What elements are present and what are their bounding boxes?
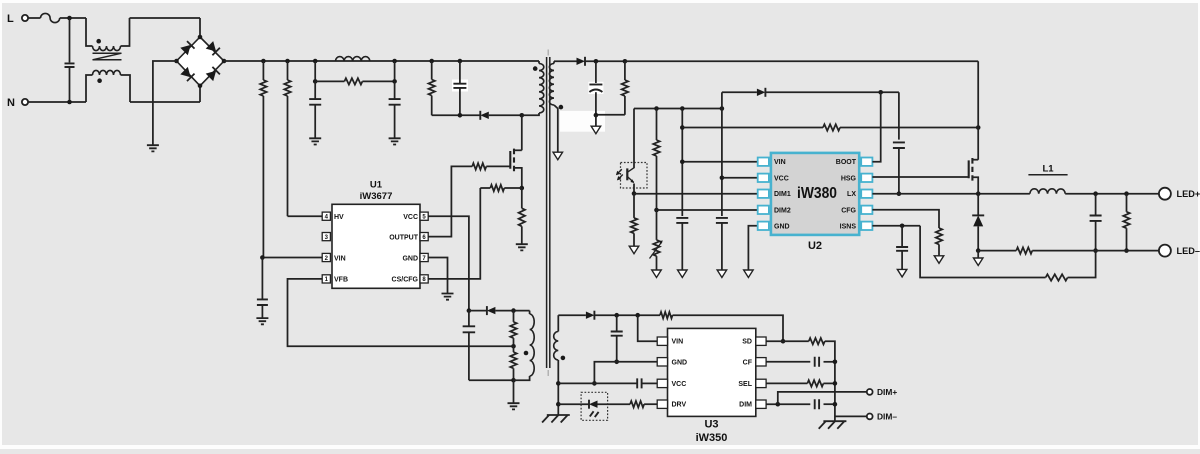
IC U2 body bbox=[771, 153, 859, 235]
svg-text:LED+: LED+ bbox=[1177, 189, 1200, 199]
U1 pin 7 box bbox=[420, 253, 428, 261]
node bbox=[261, 59, 266, 64]
node bbox=[392, 79, 397, 84]
optocoupler U4 transistor bbox=[627, 168, 634, 183]
svg-text:L: L bbox=[7, 13, 14, 25]
capacitor C5 bbox=[257, 258, 268, 318]
wire bbox=[1068, 251, 1096, 278]
bridge rectifier BR1 body bbox=[177, 37, 225, 86]
capacitor C2 bbox=[309, 81, 321, 138]
wire bbox=[824, 403, 835, 405]
svg-text:U1: U1 bbox=[370, 180, 383, 191]
resistor R6 sense bbox=[519, 188, 525, 244]
node bbox=[680, 106, 685, 111]
U1 pin labels left bbox=[334, 214, 348, 284]
wire DIM- bbox=[835, 415, 867, 417]
wire bbox=[557, 360, 559, 415]
terminal LED+ bbox=[1159, 188, 1171, 200]
polarity dot bbox=[97, 78, 102, 83]
node bbox=[623, 59, 628, 64]
wire bbox=[598, 403, 631, 405]
wire bbox=[554, 105, 558, 152]
wire CF bbox=[766, 361, 810, 363]
svg-text:LED–: LED– bbox=[1177, 246, 1200, 256]
polarity dot bbox=[524, 351, 529, 356]
resistor R14 bbox=[936, 228, 942, 255]
diode D8 freewheel bbox=[972, 194, 984, 251]
wire SD bbox=[766, 340, 809, 342]
wire VBUS rail bbox=[625, 60, 978, 62]
wire bbox=[558, 314, 586, 316]
svg-text:CFG: CFG bbox=[841, 207, 856, 214]
node bridge left bbox=[174, 59, 179, 64]
resistor R3 bbox=[344, 78, 362, 84]
svg-text:GND: GND bbox=[774, 223, 790, 230]
ground bbox=[147, 145, 159, 151]
ground secondary bbox=[897, 269, 907, 277]
node bbox=[900, 224, 905, 229]
wire bbox=[765, 91, 899, 93]
node bbox=[467, 308, 472, 313]
wire bbox=[153, 61, 177, 145]
U1 pin 2 box bbox=[322, 253, 330, 261]
U3 pin SD bbox=[742, 337, 766, 346]
capacitor C11 bbox=[896, 226, 908, 269]
wire bbox=[60, 17, 86, 19]
svg-text:DIM+: DIM+ bbox=[877, 387, 897, 397]
svg-text:ISNS: ISNS bbox=[840, 223, 857, 230]
node L1 bbox=[67, 16, 72, 21]
wire bbox=[504, 187, 522, 189]
U3 pin VIN bbox=[657, 337, 683, 346]
wire bbox=[199, 18, 201, 37]
node bbox=[285, 59, 290, 64]
wire bbox=[199, 86, 201, 102]
node bbox=[556, 402, 561, 407]
U2 pin VCC bbox=[758, 174, 789, 183]
U2 pin ISNS bbox=[840, 222, 873, 231]
label iW3677 bbox=[360, 191, 393, 202]
capacitor C9 bbox=[716, 218, 728, 270]
node bbox=[313, 79, 318, 84]
wire bbox=[538, 61, 540, 64]
ground secondary bbox=[629, 246, 639, 254]
U2 pin DIM1 bbox=[758, 190, 791, 199]
bridge diode D-BR bbox=[206, 67, 220, 81]
wire bbox=[522, 113, 539, 115]
svg-text:HSG: HSG bbox=[841, 175, 857, 182]
optocoupler light arrows bbox=[616, 169, 623, 180]
U2 pin CFG bbox=[841, 206, 872, 215]
U1 pin 5 box bbox=[420, 212, 428, 220]
node bbox=[458, 113, 463, 118]
wire bbox=[86, 75, 93, 102]
wire VCC branch bbox=[721, 92, 723, 216]
svg-text:SD: SD bbox=[742, 339, 752, 346]
wire DIM+ bbox=[778, 392, 867, 404]
node N1 bbox=[67, 100, 72, 105]
optocoupler U4 box bbox=[621, 163, 648, 189]
ground bbox=[309, 138, 321, 144]
terminal DIM- bbox=[867, 414, 873, 420]
svg-text:N: N bbox=[7, 97, 15, 109]
capacitor C14 bbox=[637, 378, 641, 388]
node bbox=[260, 255, 265, 260]
label blank bbox=[588, 82, 603, 94]
resistor R5 bbox=[472, 163, 486, 169]
capacitor CX1 bbox=[65, 18, 75, 102]
node bbox=[833, 360, 838, 365]
bridge diode D-BL bbox=[180, 67, 194, 81]
wire LED- rail bbox=[978, 250, 1016, 252]
wire VCC bbox=[428, 216, 469, 310]
svg-text:VIN: VIN bbox=[672, 339, 684, 346]
wire VFB bbox=[288, 279, 514, 346]
node bbox=[654, 208, 659, 213]
opto LED U4 box bbox=[581, 392, 608, 420]
terminal L bbox=[22, 15, 28, 21]
node bbox=[976, 248, 981, 253]
U2 pin BOOT bbox=[836, 158, 873, 167]
label DIM+ bbox=[877, 387, 897, 397]
svg-text:DIM2: DIM2 bbox=[774, 207, 791, 214]
wire DIM bbox=[766, 403, 810, 405]
transformer T2 aux winding bbox=[514, 311, 535, 381]
resistor R2 bbox=[284, 61, 290, 216]
wire bbox=[495, 310, 529, 312]
label blank bbox=[452, 80, 468, 92]
svg-text:CF: CF bbox=[743, 359, 753, 366]
node bbox=[976, 125, 981, 130]
transformer T2 secondary winding bbox=[549, 61, 554, 105]
label iW350 bbox=[696, 432, 728, 444]
U2 pin GND bbox=[758, 222, 790, 231]
ground bbox=[442, 294, 454, 300]
label U2 bbox=[808, 240, 822, 252]
node bbox=[458, 59, 463, 64]
svg-text:U3: U3 bbox=[704, 419, 718, 431]
capacitor C12 bbox=[1090, 194, 1102, 251]
polarity dot bbox=[561, 356, 566, 361]
node bbox=[1093, 191, 1098, 196]
wire VIN branch bbox=[681, 109, 683, 217]
U1 pin 3 box bbox=[322, 233, 330, 241]
capacitor C10 boot bbox=[893, 92, 905, 193]
wire bbox=[977, 61, 979, 159]
U1 pin 1 box bbox=[322, 275, 330, 283]
wire DIM2 bbox=[657, 209, 758, 211]
node bbox=[614, 360, 619, 365]
label blank bbox=[560, 111, 605, 132]
svg-text:VFB: VFB bbox=[334, 277, 348, 284]
inductor L2 bbox=[336, 57, 370, 61]
resistor R4 bbox=[429, 61, 435, 115]
capacitor C15 bbox=[815, 357, 819, 367]
U2 pin DIM2 bbox=[758, 206, 791, 215]
node bbox=[429, 59, 434, 64]
resistor R15 bbox=[1046, 274, 1068, 280]
resistor R12 bbox=[653, 109, 659, 211]
wire VIN bbox=[262, 257, 322, 259]
label iW380 bbox=[797, 185, 837, 202]
wire LX bbox=[872, 193, 1030, 195]
diode D2 bbox=[487, 306, 496, 315]
wire bbox=[977, 251, 979, 258]
choke T1 bottom winding bbox=[93, 70, 121, 75]
node bridge bottom bbox=[198, 84, 203, 89]
capacitor C13 bbox=[611, 315, 623, 362]
svg-text:DRV: DRV bbox=[672, 402, 687, 409]
node bbox=[776, 402, 781, 407]
opto LED arrows bbox=[590, 411, 599, 417]
wire bbox=[130, 101, 200, 103]
transformer T2 aux2 winding bbox=[554, 315, 559, 360]
wire bbox=[121, 18, 130, 46]
wire bbox=[825, 341, 835, 421]
capacitor C8 bbox=[676, 218, 688, 270]
svg-text:L1: L1 bbox=[1042, 164, 1054, 175]
svg-text:DIM: DIM bbox=[739, 402, 752, 409]
resistor R17 bbox=[1016, 247, 1032, 253]
wire bbox=[824, 361, 835, 363]
wire bbox=[823, 382, 835, 384]
svg-text:GND: GND bbox=[672, 359, 688, 366]
svg-text:BOOT: BOOT bbox=[836, 159, 857, 166]
capacitor C16 bbox=[815, 399, 819, 409]
label U3 bbox=[704, 419, 718, 431]
node bbox=[878, 90, 883, 95]
wire CS bbox=[428, 188, 480, 279]
node bbox=[897, 191, 902, 196]
node bbox=[313, 59, 318, 64]
wire bbox=[314, 61, 316, 81]
ground secondary bbox=[744, 270, 754, 278]
wire GND pin bbox=[748, 226, 758, 270]
wire bbox=[315, 80, 344, 82]
transistor Q1 bbox=[510, 149, 522, 188]
ground bbox=[508, 403, 520, 409]
wire bbox=[28, 101, 86, 103]
wire BOOT bbox=[872, 92, 880, 161]
node bbox=[632, 191, 637, 196]
transformer core bbox=[547, 50, 550, 377]
wire bbox=[394, 61, 396, 81]
U3 pin CF bbox=[743, 358, 766, 367]
wire bbox=[554, 60, 577, 62]
wire bbox=[28, 17, 40, 19]
polarity dot bbox=[559, 105, 564, 110]
IC U3 body bbox=[668, 328, 756, 416]
diode D9 bbox=[586, 311, 595, 320]
svg-text:VCC: VCC bbox=[403, 214, 418, 221]
ground secondary bbox=[934, 256, 944, 263]
wire bbox=[469, 379, 514, 381]
wire bbox=[86, 18, 93, 46]
terminal DIM+ bbox=[867, 389, 873, 395]
label U1 bbox=[370, 180, 383, 191]
label N bbox=[7, 97, 15, 109]
polarity dot bbox=[96, 39, 101, 44]
resistor R1 bbox=[260, 61, 266, 258]
node bbox=[680, 125, 685, 130]
U2 pin LX bbox=[847, 190, 872, 199]
wire bbox=[469, 310, 487, 312]
U1 pin 6 box bbox=[420, 233, 428, 241]
wire bbox=[642, 382, 658, 384]
wire VIN pin bbox=[682, 161, 758, 163]
resistor R11 bbox=[631, 194, 637, 246]
transistor Q2 bbox=[969, 158, 979, 194]
wire DC+ rail bbox=[224, 60, 539, 62]
diode D4 bbox=[757, 88, 766, 97]
wire bbox=[480, 187, 490, 189]
node bbox=[594, 113, 599, 118]
wire bbox=[673, 315, 784, 341]
node bbox=[511, 378, 516, 383]
ground earth bbox=[542, 415, 570, 423]
label L bbox=[7, 13, 14, 25]
wire bbox=[722, 91, 757, 93]
capacitor C7 bbox=[589, 61, 602, 115]
wire bbox=[594, 314, 660, 316]
ground secondary bbox=[591, 126, 601, 134]
U2 pin VIN bbox=[758, 158, 786, 167]
node bbox=[520, 186, 525, 191]
U1 pin 4 box bbox=[322, 212, 330, 220]
svg-text:iW3677: iW3677 bbox=[360, 191, 393, 202]
resistor R18 bbox=[660, 312, 673, 318]
bridge diode D-TL bbox=[180, 41, 194, 55]
transformer T2 primary winding bbox=[539, 64, 544, 114]
node bbox=[781, 339, 786, 344]
svg-text:OUTPUT: OUTPUT bbox=[389, 234, 419, 241]
wire bbox=[362, 80, 394, 82]
choke T1 top winding bbox=[93, 46, 121, 51]
diode D1 bbox=[480, 111, 489, 120]
IC U1 body bbox=[332, 204, 420, 288]
capacitor C6 bbox=[463, 311, 476, 381]
wire VIN U3 bbox=[638, 315, 658, 341]
ground secondary bbox=[717, 270, 727, 278]
U3 pin VCC bbox=[657, 379, 686, 388]
node bbox=[511, 308, 516, 313]
svg-text:SEL: SEL bbox=[738, 381, 752, 388]
resistor R20 bbox=[809, 338, 825, 344]
capacitor C3 bbox=[389, 81, 401, 138]
wire SEL bbox=[766, 382, 807, 384]
wire bbox=[644, 403, 657, 405]
label LED+ bbox=[1177, 189, 1200, 199]
wire bbox=[513, 380, 515, 403]
wire ISNS bbox=[872, 225, 920, 227]
U1 pin 8 box bbox=[420, 275, 428, 283]
wire VCC row bbox=[558, 382, 637, 384]
node bbox=[594, 59, 599, 64]
U3 pin DIM bbox=[739, 400, 766, 409]
resistor R9 bbox=[510, 346, 516, 380]
wire net A bbox=[634, 108, 722, 110]
node bbox=[720, 176, 725, 181]
wire GND U3 bbox=[594, 362, 657, 384]
node bbox=[635, 313, 640, 318]
node bbox=[392, 59, 397, 64]
node bridge right bbox=[222, 59, 227, 64]
inductor L1 bbox=[1030, 189, 1065, 194]
capacitor C4 bbox=[453, 61, 466, 115]
wire GND bbox=[428, 258, 447, 294]
ground secondary bbox=[553, 152, 563, 160]
ground secondary bbox=[652, 270, 662, 278]
node bbox=[976, 191, 981, 196]
wire bbox=[585, 60, 625, 62]
node bridge top bbox=[198, 35, 203, 40]
terminal LED- bbox=[1159, 245, 1171, 257]
node bbox=[1124, 191, 1129, 196]
node bbox=[1124, 248, 1129, 253]
wire DRV row bbox=[558, 403, 589, 405]
wire gate bbox=[486, 165, 510, 167]
node bbox=[833, 402, 838, 407]
wire HV bbox=[288, 215, 323, 217]
wire bbox=[121, 75, 131, 102]
ground bbox=[389, 138, 401, 144]
svg-text:HV: HV bbox=[334, 214, 344, 221]
resistor R13 bbox=[823, 124, 840, 130]
wire bbox=[489, 114, 522, 116]
resistor R16 bbox=[1123, 194, 1129, 251]
bridge diode D-TR bbox=[206, 41, 220, 55]
ground secondary bbox=[973, 258, 983, 266]
varistor RV1 bbox=[650, 210, 663, 270]
wire bbox=[840, 127, 978, 129]
wire DIM1 bbox=[634, 193, 758, 195]
svg-text:VIN: VIN bbox=[774, 159, 786, 166]
wire bbox=[595, 115, 597, 126]
U2 pin HSG bbox=[841, 174, 873, 183]
resistor R21 bbox=[807, 380, 823, 386]
wire bbox=[1032, 250, 1161, 252]
wire CFG bbox=[872, 210, 939, 228]
node bbox=[592, 381, 597, 386]
resistor R19 bbox=[630, 401, 644, 407]
choke core bbox=[93, 53, 122, 60]
ground secondary bbox=[678, 270, 688, 278]
wire bbox=[428, 166, 472, 236]
ground bbox=[256, 318, 268, 324]
wire collector bbox=[633, 109, 635, 169]
U3 pin DRV bbox=[657, 400, 686, 409]
node bbox=[720, 106, 725, 111]
resistor R7 bbox=[490, 185, 504, 191]
node bbox=[511, 344, 516, 349]
svg-text:LX: LX bbox=[847, 191, 856, 198]
node bbox=[654, 106, 659, 111]
ground bbox=[516, 244, 528, 250]
wire bbox=[682, 127, 823, 129]
node bbox=[833, 381, 838, 386]
label LED- bbox=[1177, 246, 1200, 256]
node bbox=[520, 113, 525, 118]
wire HSG bbox=[872, 176, 968, 178]
svg-text:VIN: VIN bbox=[334, 255, 346, 262]
svg-text:DIM1: DIM1 bbox=[774, 191, 791, 198]
opto LED D10 bbox=[589, 400, 598, 409]
svg-text:CS/CFG: CS/CFG bbox=[392, 277, 419, 284]
diode D3 bbox=[577, 57, 586, 66]
polarity dot bbox=[533, 66, 538, 71]
ground earth bbox=[819, 421, 847, 429]
label DIM- bbox=[877, 412, 897, 422]
